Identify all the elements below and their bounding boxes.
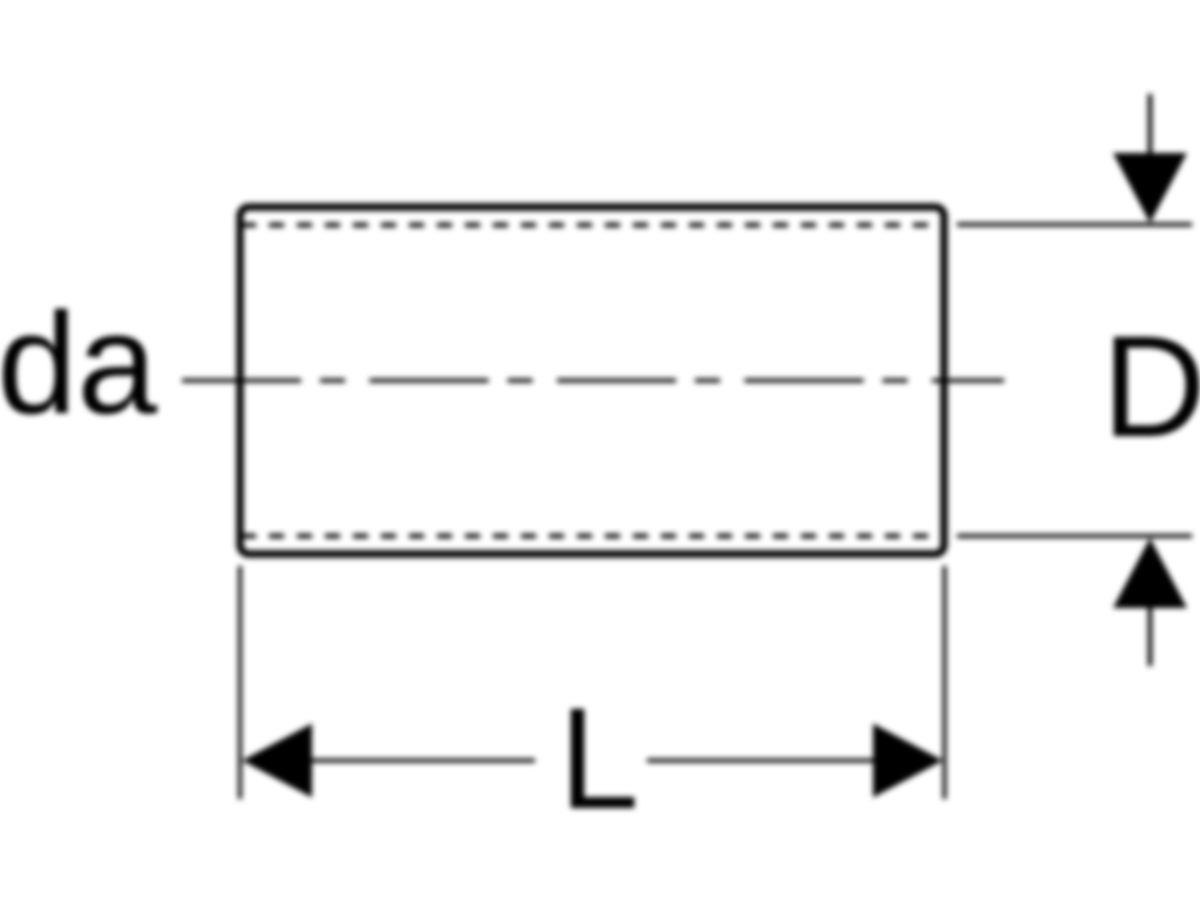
- D arrow bottom: leader line: [1148, 602, 1153, 666]
- L dimension line left segment: [308, 759, 535, 763]
- centerline dash-dot: [182, 379, 1004, 383]
- extension line right top (D): [957, 223, 1192, 227]
- svg-text:L: L: [559, 678, 639, 839]
- L arrowhead left: [242, 724, 312, 798]
- extension line right bottom (D): [957, 534, 1192, 538]
- D arrow top: leader line: [1148, 94, 1153, 160]
- extension line bottom right (L): [943, 566, 947, 799]
- extension line bottom left (L): [238, 566, 242, 799]
- sleeve body outline: [240, 207, 944, 554]
- inner bore hidden line top: [241, 223, 944, 228]
- L dimension line right segment: [647, 759, 875, 763]
- svg-text:da: da: [0, 283, 158, 444]
- svg-text:D: D: [1102, 306, 1200, 467]
- D arrow top: arrowhead down: [1113, 153, 1187, 223]
- D arrow bottom: arrowhead up: [1113, 538, 1187, 608]
- inner bore hidden line bottom: [241, 534, 944, 539]
- L arrowhead right: [873, 724, 943, 798]
